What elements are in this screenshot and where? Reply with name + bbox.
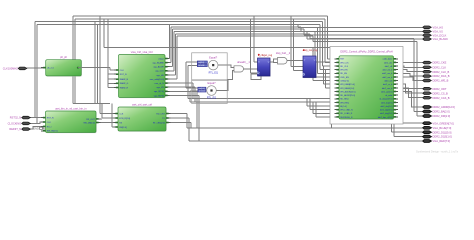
wire vga row7 down: [169, 82, 194, 84]
svg-text:vga_B[7:0]: vga_B[7:0]: [154, 91, 164, 93]
wire top net from RST32_N port (y=21.5): [35, 21, 323, 23]
svg-text:ddr2_dqs[1:0]: ddr2_dqs[1:0]: [380, 113, 393, 115]
svg-text:DDR2_Control_dPoHy_DDR2_Contro: DDR2_Control_dPoHy_DDR2_Control_dPoH: [340, 50, 392, 54]
button debounce U5: [46, 112, 96, 134]
wire equal1 out to and gate: [218, 65, 234, 67]
svg-text:ddr2_clk: ddr2_clk: [385, 66, 393, 68]
svg-text:calib_done: calib_done: [383, 59, 394, 61]
wire top loop net clk_fb (y=16): [73, 15, 328, 17]
svg-text:BL[5:0]: BL[5:0]: [340, 106, 347, 108]
svg-text:Equal?: Equal?: [207, 81, 216, 85]
svg-text:ddr2_a[12:0]: ddr2_a[12:0]: [381, 91, 393, 93]
svg-text:RD_CLK: RD_CLK: [340, 66, 349, 68]
inout port VGA_RED[7:0]: [423, 140, 432, 143]
Equal2 operand box B: [198, 90, 206, 92]
wire long net y47 to DDR2 L7: [103, 19, 105, 48]
wire reg1 Q to gate2: [270, 59, 278, 62]
wire btn out1 to uart: [101, 118, 103, 120]
svg-text:SW_IN[1:0]: SW_IN[1:0]: [47, 131, 58, 133]
wire DDR2 R2 to DDR2_CKE port: [398, 62, 423, 64]
svg-text:DDR2_BA[2:0]: DDR2_BA[2:0]: [433, 110, 450, 114]
svg-text:ddr2_clk_b: ddr2_clk_b: [383, 70, 394, 72]
svg-text:clkout: clkout: [158, 57, 164, 60]
pll U1: [46, 61, 82, 77]
svg-text:vGa_Ctrl_vGa_Ctrl: vGa_Ctrl_vGa_Ctrl: [131, 50, 153, 54]
wire uart out2 down: [171, 117, 190, 119]
pll output pin dot: [77, 67, 79, 69]
svg-text:ddr2_ba[2:0]: ddr2_ba[2:0]: [381, 102, 393, 104]
svg-text:WR_CLK: WR_CLK: [340, 62, 349, 64]
svg-text:u_clkget_reg: u_clkget_reg: [258, 54, 273, 57]
svg-text:cnt[9:0]: cnt[9:0]: [199, 87, 206, 90]
Equal1 operand box B: [197, 64, 207, 67]
wire DDR2 R4 to DDR2_CLK_B port: [398, 70, 423, 72]
wire vga ram_rd over block to DDR2 dm port: [176, 36, 178, 79]
svg-text:CLK100MHZ: CLK100MHZ: [3, 67, 18, 71]
svg-text:uart_btn_in_vd_uart_btn_in: uart_btn_in_vd_uart_btn_in: [55, 106, 87, 110]
svg-text:RD_ADDR[25:0]: RD_ADDR[25:0]: [340, 94, 355, 97]
svg-text:GND: GND: [33, 127, 39, 130]
hierarchy box Equal2: [192, 80, 228, 103]
wire top loop net rst_sync (y=19): [75, 18, 325, 20]
svg-text:ddr2_cke: ddr2_cke: [384, 62, 393, 64]
svg-text:SW[2:0]: SW[2:0]: [119, 127, 127, 129]
input port CLOCKING: [22, 122, 31, 125]
uart controller U3: [119, 108, 167, 132]
register reg1 u_clkget_reg: [258, 59, 271, 77]
wire vertical pair mid-left: [94, 22, 96, 104]
wire below box to VGA_GREEN port: [386, 121, 388, 124]
svg-text:10'h28F: 10'h28F: [198, 65, 206, 67]
wire junction bus left (y=103.3): [73, 102, 110, 104]
wire nested corner into DDR2 L4: [319, 25, 321, 70]
svg-text:VGA_BLANK: VGA_BLANK: [433, 37, 449, 41]
output port DDR2_RAS_B: [423, 75, 432, 78]
register reg2 disp_res_reg: [304, 57, 317, 79]
svg-text:DDR2_ADDR[12:0]: DDR2_ADDR[12:0]: [433, 105, 456, 109]
wire uart clk feed: [99, 16, 101, 114]
svg-text:BTN_R[2:0]: BTN_R[2:0]: [119, 118, 130, 120]
output port DDR2_CS_B: [423, 92, 432, 95]
wire below box to DDR2_DQS port: [393, 121, 395, 137]
wire bus tap to DDR2 L15: [309, 98, 311, 109]
wire tap into DDR2 L5: [317, 27, 319, 73]
wire DDR2 R3 to DDR2_CLK port: [398, 66, 423, 67]
svg-text:CMD[2:0]: CMD[2:0]: [340, 81, 349, 83]
wire top net from CLOCKING port (y=24.5): [37, 24, 320, 26]
hierarchy box Equal1: [192, 53, 228, 80]
wire near-block feed DDR2 L9: [325, 70, 327, 88]
svg-text:VGA_BLUE[7:0]: VGA_BLUE[7:0]: [433, 126, 452, 130]
svg-text:disp_res_reg: disp_res_reg: [303, 49, 318, 52]
wire vga row8 down: [169, 86, 196, 88]
svg-text:VGA_GREEN[7:0]: VGA_GREEN[7:0]: [433, 121, 454, 125]
svg-text:WR_DATA[15:0]: WR_DATA[15:0]: [340, 83, 355, 86]
svg-text:RAM2_B: RAM2_B: [120, 78, 129, 81]
svg-text:DDR2_CAS_B: DDR2_CAS_B: [433, 96, 450, 100]
wire vga ram_addr over block to DDR2 addr port: [175, 34, 177, 75]
svg-text:DDR2_CLK: DDR2_CLK: [433, 65, 447, 69]
vga controller U2: [119, 55, 166, 98]
svg-text:RD_LOAD_N: RD_LOAD_N: [340, 112, 353, 115]
svg-text:RD_REQ: RD_REQ: [340, 99, 349, 101]
wire DDR2 R13 stub: [398, 101, 402, 103]
svg-text:RTL_EQ: RTL_EQ: [207, 97, 216, 100]
svg-text:10'h20D: 10'h20D: [199, 91, 207, 93]
svg-text:DDR2_RAS_B: DDR2_RAS_B: [433, 74, 450, 78]
input port REINIT_N: [22, 128, 31, 131]
output port DDR2_ODT: [423, 87, 432, 90]
wire below box to DDR2_DQ port: [391, 121, 393, 133]
svg-text:RST32_N: RST32_N: [10, 116, 22, 120]
svg-text:ddr2_we_b: ddr2_we_b: [382, 77, 393, 79]
wire uart pin4 feed: [111, 103, 113, 127]
wire DDR2 R7 to DDR2_ODT port: [398, 81, 423, 89]
wire pll clk_out to vga CLK: [81, 67, 110, 69]
wire nested corner into DDR2 L2: [324, 19, 326, 62]
svg-text:vga_BLANK: vga_BLANK: [152, 62, 164, 65]
wire nested corner into DDR2 L3: [322, 22, 324, 67]
DDR2 memory controller U4 core: [340, 57, 395, 120]
svg-text:cnt[9:0]: cnt[9:0]: [198, 61, 205, 64]
wire near-block feed DDR2 L8: [323, 66, 325, 84]
output port DDR2_BA[2:0]: [423, 110, 432, 113]
output port VGA_BLANK: [423, 38, 432, 41]
wire DDR2 R14 stub: [398, 105, 402, 107]
svg-text:SW_DB[1:0]: SW_DB[1:0]: [83, 122, 95, 124]
wire CLOCKING port to btn: [30, 122, 41, 123]
svg-text:WR_EN: WR_EN: [340, 70, 348, 72]
svg-text:ddr2_dm[1:0]: ddr2_dm[1:0]: [381, 106, 393, 108]
wire btn out2 to uart: [101, 122, 114, 124]
svg-text:vga_R[7:0]: vga_R[7:0]: [154, 95, 164, 97]
svg-text:RAM2_G: RAM2_G: [120, 82, 129, 85]
wire reg1 ce from top: [250, 19, 252, 73]
svg-text:CMD_EN: CMD_EN: [340, 77, 349, 79]
wire vga_VS net to port: [170, 27, 172, 63]
svg-text:RST_N: RST_N: [47, 118, 54, 120]
Equal2 operand box A: [198, 87, 206, 89]
svg-text:CLK: CLK: [119, 113, 124, 115]
output port DDR2_WE_B: [423, 79, 432, 82]
output port VGA_VS: [423, 30, 432, 33]
wire bus tap to DDR2 L17: [315, 102, 317, 117]
wire equal2 out to and gate: [216, 70, 234, 90]
svg-text:ddr2_ras_b: ddr2_ras_b: [382, 73, 393, 75]
wire DDR2 R6 to DDR2_WE_B port: [398, 77, 423, 81]
wire equal2 input b: [190, 90, 198, 92]
svg-text:Equal?: Equal?: [209, 56, 218, 60]
wire reg2 clock from top: [290, 16, 292, 67]
svg-text:clk_in1: clk_in1: [47, 68, 55, 70]
svg-text:DDR2_CKE: DDR2_CKE: [433, 61, 447, 65]
svg-text:RX_OUT: RX_OUT: [86, 119, 95, 121]
wire DDR2 R5 to DDR2_RAS_B port: [398, 73, 423, 76]
output port DDR2_CLK_B: [423, 70, 432, 73]
svg-text:ram_addr[18:0]: ram_addr[18:0]: [150, 78, 165, 81]
inout port DDR2_DQS[1:0]: [423, 135, 432, 138]
wire REINIT_N port to btn: [30, 126, 41, 129]
svg-text:DDR2_WE_B: DDR2_WE_B: [433, 79, 449, 83]
output port DDR2_ADDR[12:0]: [423, 106, 432, 109]
svg-text:DDR2_CS_B: DDR2_CS_B: [433, 91, 449, 95]
svg-text:vga_CLK: vga_CLK: [155, 71, 164, 73]
svg-text:rd_valid: rd_valid: [385, 95, 392, 97]
svg-text:Synthesized Design - synth_: Synthesized Design - synth_1 | xc7a: [416, 150, 458, 154]
output port DDR2_CAS_B: [423, 96, 432, 99]
wire DDR2 R8 to DDR2_CS_B port: [398, 84, 423, 93]
wire DDR2 R12 stub: [398, 98, 402, 100]
wire bus up into DDR2 L10 L11: [331, 92, 333, 128]
inout port DDR2_DQ[15:0]: [423, 131, 432, 134]
svg-text:DDR2_CLK_B: DDR2_CLK_B: [433, 70, 450, 74]
svg-text:VGA_RED[7:0]: VGA_RED[7:0]: [433, 139, 451, 143]
svg-text:vga_ALIVE: vga_ALIVE: [153, 66, 164, 69]
wire vga_BLANK net to port: [173, 32, 175, 71]
wire DDR2 R15 stub: [398, 109, 402, 111]
svg-text:pll_pll: pll_pll: [60, 55, 67, 59]
input port RST32_N: [22, 116, 31, 119]
svg-text:DDR2_DQ[15:0]: DDR2_DQ[15:0]: [433, 130, 452, 134]
svg-text:VGA_VS: VGA_VS: [433, 30, 444, 34]
svg-text:REFRESH_N: REFRESH_N: [340, 117, 353, 119]
svg-text:VGA_DCLK: VGA_DCLK: [433, 33, 447, 37]
wire DDR2 R17 stub: [398, 116, 402, 118]
wire bus tap to DDR2 L16: [312, 102, 314, 113]
wire and1 out to reg1 D: [244, 68, 258, 70]
wire equal1 input b: [188, 64, 197, 66]
wire gnd to btn pin4: [41, 128, 44, 131]
wire long mid bus to DDR2 L12: [188, 97, 335, 99]
wire uart rst feed: [101, 103, 103, 118]
svg-text:DDR2_DQS[1:0]: DDR2_DQS[1:0]: [433, 135, 452, 139]
wire reg2 ce from top: [293, 19, 295, 71]
svg-text:disp_ha0__2: disp_ha0__2: [276, 52, 291, 55]
svg-text:RX_I: RX_I: [47, 126, 52, 128]
output port VGA_HS: [423, 26, 432, 29]
wire DDR2 R9 to DDR2_CAS_B port: [398, 88, 423, 98]
wire vga_DCLK net to port: [172, 29, 174, 66]
svg-text:ddr2_dqs_n[1:0]: ddr2_dqs_n[1:0]: [378, 117, 393, 119]
hierarchical boundary box U4 DDR2_Control_dPoHy: [330, 47, 403, 125]
wire bus tap to DDR2 L14: [306, 98, 308, 106]
svg-text:CLOCKING: CLOCKING: [8, 122, 22, 126]
svg-text:ahead0__1: ahead0__1: [237, 61, 250, 64]
svg-text:RTL_EQ: RTL_EQ: [209, 71, 218, 74]
wire long bottom bus to VGA_RED port: [189, 140, 423, 142]
wire uart out1 down: [171, 113, 188, 115]
wire reg2 Q to DDR2 box: [316, 61, 330, 63]
wire long bottom bus to VGA_BLUE port: [187, 127, 423, 129]
output port DDR2_CKE: [423, 61, 432, 64]
wire gate2 out to reg2 D: [287, 60, 303, 62]
svg-text:WR_REQ: WR_REQ: [340, 102, 349, 104]
wire DDR2 R11 down below box: [387, 95, 403, 120]
wire tap into DDR2 L6: [314, 31, 316, 77]
svg-text:ddr2_cs_b: ddr2_cs_b: [383, 84, 393, 86]
output port DDR2_DM[1:0]: [423, 115, 432, 118]
svg-text:DDR2_DM[1:0]: DDR2_DM[1:0]: [433, 114, 451, 118]
svg-text:RAM2_R: RAM2_R: [120, 86, 129, 89]
inout port VGA_GREEN[7:0]: [423, 122, 432, 125]
svg-text:WR_LOAD_N: WR_LOAD_N: [340, 109, 353, 112]
svg-text:ddr2_dq[15:0]: ddr2_dq[15:0]: [380, 110, 393, 112]
svg-text:VGA_HS: VGA_HS: [433, 25, 444, 29]
svg-text:ddr2_odt: ddr2_odt: [384, 80, 392, 83]
svg-text:DDR2_ODT: DDR2_ODT: [433, 87, 447, 91]
svg-text:RD_CNT: RD_CNT: [156, 113, 165, 115]
wire RST32_N port to btn: [30, 117, 41, 119]
wire vga_HS net to port: [169, 25, 171, 59]
inout port VGA_BLUE[7:0]: [423, 126, 432, 129]
wire CLK100MHZ to pll: [27, 67, 46, 69]
input port CLK100MHZ: [18, 67, 27, 70]
output port VGA_DCLK: [423, 34, 432, 37]
wire vga row10 down: [169, 94, 200, 96]
Equal1 operand box A: [197, 61, 207, 64]
svg-text:REINIT_N: REINIT_N: [9, 127, 21, 131]
wire equal1 input a: [186, 61, 197, 63]
svg-text:uart_ctrl_uart_ctrl: uart_ctrl_uart_ctrl: [132, 102, 153, 106]
svg-text:WR_ADDR[25:0]: WR_ADDR[25:0]: [340, 90, 356, 93]
svg-text:CLK: CLK: [47, 122, 52, 124]
svg-text:vga_VS: vga_VS: [157, 87, 165, 89]
svg-text:ddr2_cas_b: ddr2_cas_b: [382, 88, 393, 90]
wire reg1 feedback loop: [251, 74, 261, 79]
svg-text:CLK: CLK: [120, 70, 125, 72]
wire DDR2 R10 to DDR2_ADDR port: [398, 92, 423, 108]
wire vga left bus: [107, 19, 109, 88]
svg-text:vga_HS: vga_HS: [156, 75, 164, 77]
svg-text:RD_EN: RD_EN: [340, 73, 347, 75]
wire reg1 clock from top: [253, 16, 255, 62]
svg-text:WR_MASK[1:0]: WR_MASK[1:0]: [340, 87, 354, 90]
wire DDR2 R1 stub: [398, 58, 401, 60]
wire DDR2 R16 stub: [398, 112, 402, 114]
svg-text:ram_rd_N: ram_rd_N: [155, 82, 165, 85]
wire vga row9 down: [169, 90, 198, 92]
wire long mid bus to DDR2 L13: [190, 101, 335, 103]
svg-text:RST_N: RST_N: [120, 74, 127, 76]
svg-text:rd_data[127:0]: rd_data[127:0]: [379, 98, 392, 101]
output port DDR2_CLK: [423, 66, 432, 69]
wire nested corner into DDR2 L1: [327, 16, 329, 59]
wire equal2 input a: [186, 87, 198, 89]
wire uart out3 down: [171, 122, 192, 124]
svg-text:RT_LED[2:0]: RT_LED[2:0]: [153, 122, 165, 124]
